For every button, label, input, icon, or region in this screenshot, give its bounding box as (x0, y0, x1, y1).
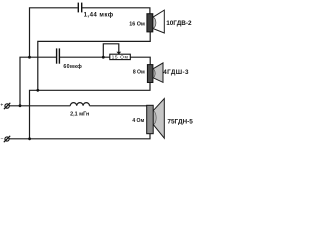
svg-text:+: + (0, 103, 3, 109)
svg-text:75ГДН-5: 75ГДН-5 (167, 118, 193, 125)
svg-text:15 Ом: 15 Ом (112, 55, 129, 61)
svg-text:4ГДШ-3: 4ГДШ-3 (163, 69, 189, 76)
svg-text:8 Ом: 8 Ом (133, 70, 145, 76)
svg-text:16 Ом: 16 Ом (129, 21, 145, 27)
speaker BA3 woofer dome (153, 111, 156, 124)
speaker BA2 midrange 4ГДШ-3 cone (153, 63, 163, 83)
wire tweeter return (38, 32, 150, 90)
wire bottom rail (terminal 2 to woofer return) (9, 134, 150, 139)
wire top branch left (input bus to C1) (30, 8, 78, 58)
svg-text:4 Ом: 4 Ом (132, 118, 144, 124)
wire mid branch middle (C2 to R1) (60, 56, 110, 58)
wire input terminal 1 to inductor (9, 105, 70, 107)
speaker BA1 tweeter dome (153, 17, 156, 28)
inductor L1 2,1 мГн (70, 103, 89, 106)
wire midrange return (30, 83, 151, 139)
wire inductor to woofer (90, 105, 147, 107)
input terminal XT2 (4, 136, 10, 142)
speaker BA2 midrange magnet body (147, 65, 153, 83)
capacitor C2 60мкф plates (57, 48, 60, 63)
resistor R1 tap arrowhead (116, 52, 121, 55)
node junction dot (terminal 1 feed) (19, 104, 22, 107)
speaker BA3 woofer magnet body (147, 105, 154, 133)
resistor R1 body (110, 54, 131, 59)
speaker BA1 tweeter magnet body (147, 14, 153, 32)
input terminal XT1 (4, 103, 10, 109)
svg-text:60мкф: 60мкф (63, 63, 82, 70)
node junction dot (tweeter return joins mid return) (36, 89, 39, 92)
svg-text:−: − (1, 137, 4, 143)
node junction dot (R1 tap) (102, 56, 105, 59)
svg-text:2,1 мГн: 2,1 мГн (70, 111, 89, 117)
speaker BA3 woofer 75ГДН-5 cone (153, 99, 164, 139)
wire mid branch right (R1 to midrange) (130, 57, 150, 64)
wire top branch right (C1 to tweeter) (82, 8, 150, 14)
node junction dot (return bus to bottom rail) (28, 137, 31, 140)
speaker BA1 tweeter 10ГДВ-2 cone (153, 10, 164, 33)
capacitor C1 1,44 мкф plates (78, 3, 81, 13)
wire mid branch left (junction to C2) (20, 57, 56, 105)
node junction dot (bus to top branch) (28, 56, 31, 59)
svg-text:10ГДВ-2: 10ГДВ-2 (166, 20, 192, 27)
speaker BA2 midrange dome (153, 69, 155, 78)
svg-text:1,44 мкф: 1,44 мкф (84, 11, 114, 18)
wire R1 bypass tap loop (103, 44, 119, 57)
